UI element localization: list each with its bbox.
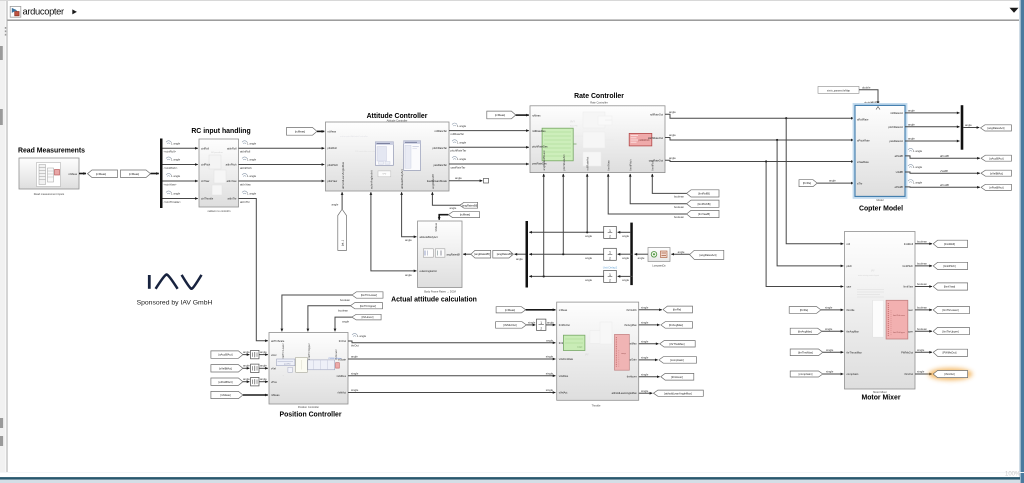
wire copter out2 to bus4 xyxy=(905,126,960,128)
from tag [limPitchB] xyxy=(687,200,719,207)
delay box vAcc xyxy=(251,350,259,358)
svg-text:1 angle: 1 angle xyxy=(457,157,467,161)
wire motor out4 to tag xyxy=(915,309,932,311)
svg-text:single: single xyxy=(641,389,649,393)
wire copter out3 to bus4 xyxy=(905,140,960,142)
svg-text:single: single xyxy=(826,370,834,374)
svg-text:limitYaw: limitYaw xyxy=(607,159,611,170)
svg-text:compGain: compGain xyxy=(847,372,859,376)
svg-text:[thrMixOut]: [thrMixOut] xyxy=(503,323,516,327)
wire bus3 to UD2 xyxy=(618,253,633,255)
right window edge xyxy=(1019,0,1021,483)
wire attInYaw to attitude xyxy=(239,180,325,182)
svg-text:<rcinYaw>: <rcinYaw> xyxy=(164,182,177,186)
wire rcMeas to throttle in1 xyxy=(526,309,556,311)
svg-text:[thrThstMax]: [thrThstMax] xyxy=(798,350,813,354)
svg-text:[aAccBfAct]: [aAccBfAct] xyxy=(990,156,1004,160)
svg-text:[thrsOut]: [thrsOut] xyxy=(944,372,955,376)
svg-text:[angRatesAct]: [angRatesAct] xyxy=(988,126,1005,130)
svg-text:yawRateAct: yawRateAct xyxy=(889,139,903,143)
svg-text:[limitRoll]: [limitRoll] xyxy=(944,242,955,246)
wire position vVelAct to throttle in6 xyxy=(348,392,555,394)
wire simin to copter top xyxy=(859,90,878,104)
wire delay to vPos xyxy=(259,381,268,383)
wire thrFW tag to copter aThr xyxy=(817,182,854,184)
svg-text:vVel: vVel xyxy=(271,367,276,371)
wire copter out4 to tag xyxy=(905,156,980,158)
svg-text:eulerAnglesInit: eulerAnglesInit xyxy=(370,170,374,189)
goto tag [thrFle] xyxy=(663,306,693,313)
svg-text:[limPitchB]: [limPitchB] xyxy=(698,202,711,206)
block Rate Controller xyxy=(530,106,665,173)
wire limRollB to rate bottom port6 xyxy=(652,174,686,193)
wire rate out1 to copter in1 xyxy=(665,114,854,118)
svg-text:single: single xyxy=(528,321,536,325)
svg-text:[limRollB]: [limRollB] xyxy=(698,192,710,196)
wire feedforwardScale to terminator xyxy=(449,180,482,182)
wire tag to attitude port4 xyxy=(432,192,459,205)
svg-text:ePosBf: ePosBf xyxy=(940,183,949,187)
left sidebar strip xyxy=(0,0,6,472)
wire junction up to rate port2 xyxy=(562,174,564,254)
svg-text:ctrlYaw: ctrlYaw xyxy=(201,179,209,183)
svg-text:1 angle: 1 angle xyxy=(457,141,467,145)
top hairline xyxy=(0,0,1024,2)
svg-text:PID controller cascade: PID controller cascade xyxy=(355,150,376,153)
dropdown triangle top-right xyxy=(1010,8,1019,13)
svg-text:vVelDes: vVelDes xyxy=(336,374,346,378)
wire throttle out1 to tag xyxy=(639,309,662,311)
svg-text:thrMixOut: thrMixOut xyxy=(559,323,571,327)
svg-text:attInRoll: attInRoll xyxy=(240,150,251,154)
svg-text:angle: angle xyxy=(405,238,412,242)
svg-text:1 angle: 1 angle xyxy=(913,149,923,153)
svg-text:z: z xyxy=(540,326,542,330)
svg-text:angle: angle xyxy=(260,377,267,381)
svg-text:limitThrLower: limitThrLower xyxy=(893,314,905,317)
from tag [rcMeas] above DCM xyxy=(448,212,479,218)
svg-text:[angRatesBf]: [angRatesBf] xyxy=(497,252,513,256)
svg-text:attInThr: attInThr xyxy=(228,197,237,201)
svg-text:1 angle: 1 angle xyxy=(171,142,181,146)
svg-text:[aAccBfAct]: [aAccBfAct] xyxy=(219,353,233,357)
svg-text:Model: Model xyxy=(876,198,883,202)
svg-text:angle: angle xyxy=(669,110,676,114)
svg-text:attInYaw: attInYaw xyxy=(227,179,237,183)
svg-text:aPosBf: aPosBf xyxy=(895,154,904,158)
svg-text:[rcMeas]: [rcMeas] xyxy=(96,172,107,176)
wire junction up to rate port3 xyxy=(586,174,588,232)
pink box xyxy=(886,300,908,339)
svg-text:angRatesBfLast: angRatesBfLast xyxy=(542,150,546,170)
svg-text:angle: angle xyxy=(351,355,358,359)
svg-text:thrAvgMax: thrAvgMax xyxy=(624,323,637,327)
svg-text:vVelCmRate: vVelCmRate xyxy=(559,357,574,361)
wire throttle out4 to tag xyxy=(639,359,658,361)
unit delay UD1 xyxy=(604,226,617,238)
svg-text:roll: roll xyxy=(847,242,851,246)
wire attitude port2 down to DCM in2 xyxy=(371,192,417,271)
svg-text:boolean: boolean xyxy=(674,215,684,219)
wire limThrLower to position top port1 xyxy=(282,295,352,331)
svg-text:rcMeas: rcMeas xyxy=(271,393,280,397)
from tag [thrHover] xyxy=(352,314,381,320)
svg-text:[limThrLower]: [limThrLower] xyxy=(942,308,959,312)
wire yawRateTar to rate xyxy=(449,163,529,165)
svg-text:angle: angle xyxy=(546,338,553,342)
svg-text:boolean: boolean xyxy=(674,205,684,209)
svg-text:rollRateTar: rollRateTar xyxy=(434,129,447,133)
goto tag [ePosBfAct] xyxy=(981,184,1011,190)
breadcrumb caret xyxy=(72,9,77,14)
svg-text:vVelDes: vVelDes xyxy=(559,374,569,378)
svg-text:[PWMsOut]: [PWMsOut] xyxy=(943,350,957,354)
svg-text:angle: angle xyxy=(260,350,267,354)
wire motor out5 to tag xyxy=(915,330,932,332)
svg-text:limitRoll: limitRoll xyxy=(904,242,914,246)
goto tag [limThrUpper] xyxy=(933,327,969,334)
svg-text:Position Controller: Position Controller xyxy=(298,405,319,409)
svg-text:attInYaw: attInYaw xyxy=(240,182,252,186)
svg-text:rcMeas: rcMeas xyxy=(68,172,77,176)
svg-text:vPos: vPos xyxy=(271,380,277,384)
wire rollRateTar to rate xyxy=(449,130,529,132)
svg-text:rollRateAct: rollRateAct xyxy=(586,157,590,171)
goto tag [vVelBfAct] xyxy=(981,170,1011,176)
svg-text:angle: angle xyxy=(455,176,462,180)
from tag [rcMeas] to rate xyxy=(487,111,516,119)
svg-text:arducopter/AttitudeController: arducopter/AttitudeController xyxy=(340,135,368,138)
svg-text:1 angle: 1 angle xyxy=(171,192,181,196)
svg-text:aYawRate: aYawRate xyxy=(857,160,869,164)
svg-text:Motor Mixer: Motor Mixer xyxy=(873,390,887,394)
svg-text:[rcMeas]: [rcMeas] xyxy=(129,172,140,176)
wire yaw branch down to motor mixer xyxy=(766,162,843,287)
svg-text:motor mixing matrix layout: motor mixing matrix layout xyxy=(858,274,879,277)
svg-text:single: single xyxy=(826,348,834,352)
svg-text:aThr: aThr xyxy=(857,181,862,185)
svg-text:[compGain]: [compGain] xyxy=(670,358,684,362)
delay box vVel xyxy=(251,364,259,372)
svg-text:thrThrustMax: thrThrustMax xyxy=(847,350,863,354)
svg-text:angle: angle xyxy=(547,321,554,325)
wire bus3 to UD3 xyxy=(618,275,633,277)
svg-text:[thrAvgMax]: [thrAvgMax] xyxy=(798,329,813,333)
block LowpassDy xyxy=(648,248,670,262)
wire motor out2 to tag xyxy=(915,265,932,267)
svg-text:1 angle: 1 angle xyxy=(357,334,367,338)
wire rcMeas thick to position xyxy=(243,394,268,396)
block Body Frame Rates to DCM xyxy=(418,221,462,288)
wire throttle out5 to tag xyxy=(639,376,660,378)
svg-text:angle: angle xyxy=(243,364,250,368)
svg-text:single: single xyxy=(641,372,649,376)
svg-text:pitchRateDes: pitchRateDes xyxy=(532,145,548,149)
wire delay to vAcc xyxy=(259,354,268,356)
wire motor out3 to tag xyxy=(915,286,932,288)
sidebar bottom box xyxy=(0,418,3,428)
svg-text:thrOut: thrOut xyxy=(339,339,346,343)
svg-text:attThrScale: attThrScale xyxy=(271,339,285,343)
svg-text:[thrHover]: [thrHover] xyxy=(671,375,683,379)
goto tag [aAccBfAct] xyxy=(981,155,1011,161)
svg-text:limitYaw: limitYaw xyxy=(904,285,914,289)
svg-text:[limThrUpper]: [limThrUpper] xyxy=(360,304,377,308)
svg-text:angle: angle xyxy=(908,122,915,126)
svg-text:[attholdLeanAngleMax]: [attholdLeanAngleMax] xyxy=(664,391,692,395)
svg-text:scope: scope xyxy=(577,347,583,349)
svg-text:boolean: boolean xyxy=(917,282,927,286)
svg-text:[ePosBfAct]: [ePosBfAct] xyxy=(989,185,1003,189)
svg-text:yaw: yaw xyxy=(847,286,852,289)
svg-text:[angRatesBf]: [angRatesBf] xyxy=(462,203,478,207)
from tag [limYawB] xyxy=(687,210,719,217)
svg-text:arducopter: arducopter xyxy=(23,5,65,16)
wire bus to ctrlYaw xyxy=(163,180,198,182)
goto tag [limitYaw] xyxy=(933,283,967,290)
wire limYawB to rate bottom port4 xyxy=(608,174,686,214)
svg-text:yawRateTar: yawRateTar xyxy=(433,163,447,167)
bus bar 1 xyxy=(160,139,163,209)
svg-text:angle: angle xyxy=(243,377,250,381)
block RC input handling xyxy=(199,139,239,207)
svg-text:1 angle: 1 angle xyxy=(247,192,257,196)
svg-text:boolean: boolean xyxy=(917,239,927,243)
breadcrumb bar xyxy=(8,1,1020,20)
from tag [thrAvgMax] to motor mixer xyxy=(790,328,822,334)
svg-text:· ›: · › xyxy=(282,376,284,378)
from tag [vVelBfAct] input xyxy=(211,365,243,372)
wire bus4 to angRatesAct tag xyxy=(963,127,979,129)
svg-text:Sponsored by IAV GmbH: Sponsored by IAV GmbH xyxy=(137,299,213,306)
svg-text:pitchRateTar: pitchRateTar xyxy=(432,146,447,150)
wire rate out2 to copter in2 xyxy=(665,138,854,141)
from tag [angRatesBf] feeding attitude port4 xyxy=(460,202,478,208)
svg-text:vVelAct: vVelAct xyxy=(559,391,568,395)
wire pitch branch down to motor mixer xyxy=(777,140,843,266)
svg-text:aPitchRate: aPitchRate xyxy=(857,138,870,142)
delay box throttle xyxy=(537,319,546,330)
svg-text:[limitYaw]: [limitYaw] xyxy=(944,285,956,289)
wire rcMeas tag to DCM top xyxy=(439,215,448,220)
block Position Controller xyxy=(269,333,348,405)
goto tag [compGain] xyxy=(659,357,697,364)
bus bar 3 xyxy=(630,223,633,286)
wire pitchRateTar to rate xyxy=(449,146,529,148)
from tag [thrMixOut] xyxy=(496,322,527,329)
svg-text:angle: angle xyxy=(669,156,676,160)
svg-text:RCpassthru: RCpassthru xyxy=(211,151,223,154)
bus bar 4 xyxy=(961,105,964,150)
svg-text:Motor Mixer: Motor Mixer xyxy=(861,394,900,401)
svg-text:limitThrUpper: limitThrUpper xyxy=(893,331,905,334)
goto tag [thrHover] xyxy=(661,373,694,380)
goto tag [thrsOut] highlighted xyxy=(933,371,967,378)
svg-text:Actual attitude calculation: Actual attitude calculation xyxy=(391,297,477,304)
svg-text:single: single xyxy=(546,388,554,392)
wire position thrOut to throttle in3 xyxy=(348,341,555,343)
sidebar mini panel box xyxy=(5,27,7,29)
unit delay UD3 xyxy=(604,270,617,282)
svg-text:attholdLeanAngleMax: attholdLeanAngleMax xyxy=(612,391,638,395)
wire tag to DCM right port xyxy=(463,253,471,255)
svg-text:angle: angle xyxy=(332,203,339,207)
wire thrMixOut to delay xyxy=(526,324,535,326)
svg-text:boolean: boolean xyxy=(917,327,927,331)
svg-text:limitPitch: limitPitch xyxy=(629,159,633,171)
svg-text:attInPitch: attInPitch xyxy=(240,166,252,170)
svg-text:[ePosBfAct]: [ePosBfAct] xyxy=(218,380,232,384)
svg-text:PWMsOut: PWMsOut xyxy=(901,350,913,354)
block Attitude Controller xyxy=(326,122,450,191)
svg-text:angle: angle xyxy=(585,278,592,282)
svg-text:throttle: throttle xyxy=(847,308,855,312)
block Read measurement inputs xyxy=(19,158,79,189)
svg-text:attitudeBodyAct: attitudeBodyAct xyxy=(420,235,438,239)
svg-text:single: single xyxy=(917,370,925,374)
svg-text:Read Measurements: Read Measurements xyxy=(18,148,85,155)
from tag [limRollB] xyxy=(687,190,719,197)
wire junction up to rate port1 xyxy=(543,174,545,276)
wire thrHover to position top port3 xyxy=(335,317,352,331)
from tag [aAccBfAct] input xyxy=(211,351,243,358)
from tag [thrFW] to copter xyxy=(799,180,817,187)
svg-text:[thrFle]: [thrFle] xyxy=(673,308,682,312)
svg-text:Rate Controller: Rate Controller xyxy=(590,100,608,104)
svg-text:angle: angle xyxy=(405,273,412,277)
svg-text:single: single xyxy=(351,388,359,392)
svg-text:rollRateAct: rollRateAct xyxy=(890,111,903,115)
svg-text:vVelBf: vVelBf xyxy=(896,170,904,174)
goto tag [angRatesBf] pair left xyxy=(471,250,491,258)
svg-text:pilotPitch: pilotPitch xyxy=(328,163,339,167)
svg-text:angle: angle xyxy=(243,350,250,354)
svg-text:double: double xyxy=(862,86,871,90)
svg-text:1 angle: 1 angle xyxy=(913,165,923,169)
svg-text:Position Controller: Position Controller xyxy=(279,412,341,419)
vertical from tag (funnel) below attitude port1 xyxy=(338,209,347,250)
svg-text:Unit Delay2: Unit Delay2 xyxy=(603,265,618,269)
from tag [rcMeas] to attitude xyxy=(287,128,318,136)
from tag [rcMeas] input xyxy=(211,391,243,398)
svg-text:Rate Controller: Rate Controller xyxy=(574,93,624,100)
svg-text:[limYawB]: [limYawB] xyxy=(698,212,710,216)
svg-text:angle: angle xyxy=(678,250,685,254)
svg-text:thrsOut: thrsOut xyxy=(904,372,913,376)
svg-text:angle: angle xyxy=(585,256,592,260)
svg-text:ctrlRoll: ctrlRoll xyxy=(201,146,209,150)
wire motor out7 to tag xyxy=(915,373,932,375)
svg-text:double: double xyxy=(871,100,880,104)
svg-text:pitchRateTar: pitchRateTar xyxy=(451,149,467,153)
svg-text:angle: angle xyxy=(450,206,457,210)
wire attInThr long path to position controller xyxy=(239,199,268,341)
highlight glow thrsOut xyxy=(929,368,973,380)
svg-text:[att...]: [att...] xyxy=(342,240,345,246)
row UD2: wire UD2 out to bus2 xyxy=(529,253,603,255)
svg-text:single: single xyxy=(641,305,649,309)
svg-text:attInThr: attInThr xyxy=(240,200,250,204)
svg-text:\^^/: \^^/ xyxy=(383,173,387,176)
goto tag [angRatesAct] right xyxy=(981,125,1012,131)
svg-text:RC input handling: RC input handling xyxy=(191,128,250,135)
junction yaw branch xyxy=(765,160,767,162)
wire attInRoll to attitude xyxy=(239,147,325,149)
wire bus to ctrlThrottle xyxy=(163,198,198,200)
goto tag [thrAvgMax] xyxy=(661,322,693,329)
svg-text:[rcMeas]: [rcMeas] xyxy=(495,113,506,117)
svg-text:[thrFle]: [thrFle] xyxy=(800,308,809,312)
inner preview windows xyxy=(277,359,295,366)
svg-text:vVelBf: vVelBf xyxy=(940,169,948,173)
svg-text:single: single xyxy=(917,348,925,352)
svg-text:boolean: boolean xyxy=(338,309,348,313)
svg-text:angRatesBf: angRatesBf xyxy=(446,253,460,257)
svg-text:[rcMeas]: [rcMeas] xyxy=(295,130,306,134)
svg-text:1 angle: 1 angle xyxy=(247,174,257,178)
wire lowpass out to bus3 xyxy=(635,253,649,255)
goto tag [attholdLeanAngleMax] xyxy=(654,390,704,396)
red block xyxy=(629,133,652,146)
from tag [limThrLower] xyxy=(352,292,383,298)
green scope block xyxy=(542,128,573,161)
svg-text:rollRateDes: rollRateDes xyxy=(532,129,546,133)
svg-text:[compGain]: [compGain] xyxy=(799,372,813,376)
svg-text:[thrThstMax]: [thrThstMax] xyxy=(670,342,685,346)
svg-text:angle: angle xyxy=(622,278,629,282)
svg-text:single: single xyxy=(546,371,554,375)
svg-text:limitThrLower: limitThrLower xyxy=(281,343,285,360)
from tag [thrFle] to motor mixer xyxy=(789,307,821,314)
from tag [limThrUpper] xyxy=(350,303,382,309)
unit delay UD2 xyxy=(604,248,617,260)
wire from tag to bus xyxy=(151,173,159,175)
svg-text:thrAvgMax: thrAvgMax xyxy=(847,329,860,333)
wire compGain to motor xyxy=(823,373,844,375)
junction rate port3 xyxy=(586,231,588,233)
svg-text:simin_params.thrMap: simin_params.thrMap xyxy=(827,89,851,92)
svg-text:<rcinRoll>: <rcinRoll> xyxy=(164,150,177,154)
svg-text:single: single xyxy=(641,339,649,343)
svg-text:thrOutFb: thrOutFb xyxy=(626,308,637,312)
IAV logo xyxy=(148,275,202,289)
svg-text:rcMeas: rcMeas xyxy=(559,308,568,312)
wire rate out3 to copter in3 xyxy=(665,160,854,161)
svg-text:rollRateTar: rollRateTar xyxy=(451,132,465,136)
svg-text:[thrAvgMax]: [thrAvgMax] xyxy=(669,323,684,327)
white boxes xyxy=(590,330,602,343)
svg-text:angle: angle xyxy=(965,123,972,127)
svg-text:[rcMeas]: [rcMeas] xyxy=(220,393,231,397)
svg-text:angle: angle xyxy=(585,234,592,238)
svg-text:thrHover: thrHover xyxy=(627,374,637,378)
from tag [rcMeas] xyxy=(121,170,151,178)
row UD1: wire UD1 out to bus2 xyxy=(529,231,603,233)
wire delay to vVel xyxy=(259,367,268,369)
svg-text:[thrHover]: [thrHover] xyxy=(362,315,374,319)
wire bus to ctrlPitch xyxy=(163,164,198,166)
svg-text:rcMeas: rcMeas xyxy=(328,130,337,134)
svg-text:Rate PID: Rate PID xyxy=(570,125,578,128)
svg-text:angle: angle xyxy=(622,256,629,260)
goto tag [limThrLower] xyxy=(933,306,969,313)
wire attInPitch to attitude xyxy=(239,164,325,166)
svg-text:[vVelBfAct]: [vVelBfAct] xyxy=(990,171,1003,175)
svg-text:single: single xyxy=(641,321,649,325)
wire bus3 to UD1 xyxy=(618,231,631,233)
svg-text:angle: angle xyxy=(516,257,523,261)
svg-text:attitudeBodyAct: attitudeBodyAct xyxy=(400,169,404,189)
